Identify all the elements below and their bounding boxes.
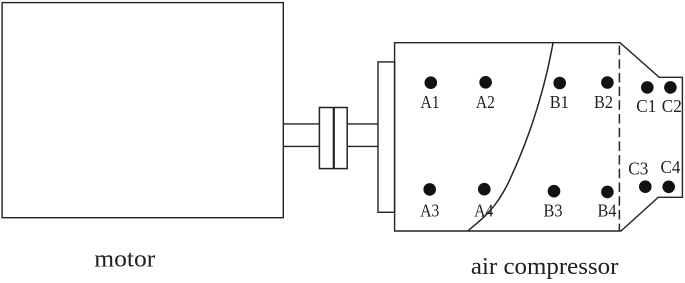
svg-text:A4: A4 — [474, 201, 493, 221]
svg-text:motor: motor — [94, 247, 155, 273]
svg-text:B4: B4 — [598, 201, 617, 221]
measurement point A1 — [425, 76, 438, 89]
measurement point C4 — [662, 181, 675, 194]
svg-text:A3: A3 — [420, 201, 439, 221]
compressor mounting flange — [378, 62, 395, 212]
measurement point A4 — [478, 183, 491, 196]
measurement point A2 — [479, 76, 492, 89]
measurement point B4 — [601, 186, 614, 199]
svg-text:B3: B3 — [544, 201, 563, 221]
svg-text:C1: C1 — [636, 96, 656, 116]
svg-text:A1: A1 — [421, 92, 440, 112]
measurement point C1 — [641, 81, 654, 94]
svg-text:A2: A2 — [476, 92, 495, 112]
dashed section line — [618, 43, 620, 231]
measurement point C3 — [639, 180, 652, 193]
coupling outer housing — [319, 108, 347, 169]
svg-text:C2: C2 — [662, 96, 682, 116]
svg-text:C4: C4 — [661, 157, 681, 177]
svg-text:air compressor: air compressor — [471, 254, 619, 280]
measurement point B3 — [548, 185, 561, 198]
svg-text:B1: B1 — [550, 92, 569, 112]
svg-text:C3: C3 — [628, 159, 648, 179]
measurement point B2 — [601, 76, 614, 89]
measurement point B1 — [553, 77, 566, 90]
svg-text:B2: B2 — [594, 92, 613, 112]
measurement point C2 — [664, 81, 677, 94]
coupling flange joint line — [333, 108, 335, 169]
internal partition curve — [468, 43, 553, 231]
air compressor body outline — [395, 43, 683, 231]
shaft segment left (motor to coupling) — [283, 124, 319, 146]
measurement point A3 — [423, 183, 436, 196]
shaft segment right (coupling to compressor) — [347, 124, 378, 146]
motor body M1 — [2, 3, 283, 218]
